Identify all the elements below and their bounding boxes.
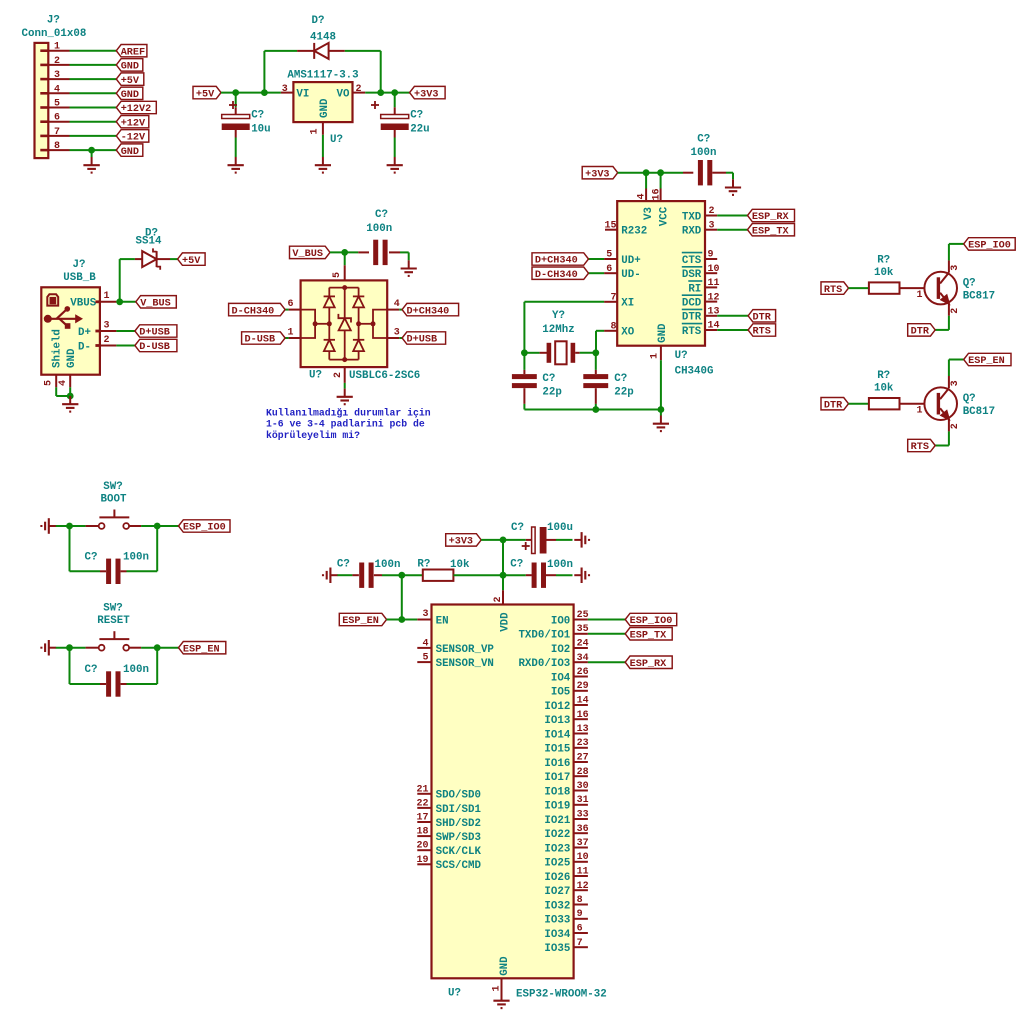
label RTS at emitter [908, 439, 936, 451]
wire +5V rail [221, 92, 281, 94]
svg-text:SW?: SW? [103, 481, 122, 493]
ESP32 pin 37 IO23 stub [574, 847, 588, 849]
svg-text:30: 30 [577, 781, 589, 792]
capacitor C? 100n at CH340 [698, 160, 703, 185]
label RTS at transistor base input [821, 282, 849, 294]
CH340 pin 13 stub [705, 315, 717, 317]
svg-text:Conn_01x08: Conn_01x08 [22, 28, 87, 40]
junction VBUS node [116, 298, 123, 305]
svg-text:+12V2: +12V2 [121, 104, 152, 115]
wire J1 pin8 to ground [91, 150, 93, 157]
svg-text:22p: 22p [614, 387, 633, 399]
wire UD- from D-CH340 [589, 272, 605, 274]
svg-text:IO26: IO26 [544, 872, 570, 884]
C100u right lead [547, 539, 557, 541]
svg-text:GND: GND [657, 323, 669, 343]
capacitor C? 22p right leads [595, 353, 597, 370]
svg-text:IO21: IO21 [544, 815, 570, 827]
svg-text:4: 4 [58, 380, 69, 386]
connector J1 pin 2 stub [40, 64, 48, 67]
svg-text:RTS: RTS [824, 285, 842, 296]
wire RXD to ESP_TX [717, 229, 747, 231]
junction V3 branch [643, 169, 650, 176]
svg-text:C?: C? [337, 559, 350, 571]
wire to ground below CH340 [660, 410, 662, 416]
ESP32 pin 3 EN stub [417, 619, 431, 621]
ESP32 pin 14 IO12 stub [574, 704, 588, 706]
wire cap to bottom right [127, 683, 158, 685]
junction right RESET [154, 644, 161, 651]
svg-text:IO12: IO12 [544, 701, 570, 713]
ESP32 pin 29 IO5 stub [574, 690, 588, 692]
svg-text:1: 1 [287, 327, 293, 338]
connector USB_B body [41, 287, 100, 374]
ESP32 pin 2 VDD stub [502, 590, 504, 604]
svg-text:12: 12 [577, 881, 589, 892]
wire +5V node up to diode D? [263, 51, 265, 93]
svg-text:+5V: +5V [121, 76, 140, 87]
svg-text:5: 5 [54, 99, 60, 110]
svg-text:+12V: +12V [121, 118, 146, 129]
ground right of C100u [574, 539, 581, 541]
ESP32 pin 20 SCK/CLK stub [417, 849, 431, 851]
svg-text:10k: 10k [874, 267, 894, 279]
label D-USB [135, 339, 177, 351]
wire right junction down [156, 526, 158, 571]
svg-text:XO: XO [621, 327, 634, 339]
svg-text:TXD: TXD [682, 211, 702, 223]
svg-text:1: 1 [916, 290, 922, 301]
svg-text:3: 3 [394, 327, 400, 338]
svg-text:D-: D- [78, 341, 91, 353]
CH340 pin 16 VCC wire [660, 173, 662, 189]
ESP32 pin 18 SWP/SD3 stub [417, 835, 431, 837]
capacitor C? 100u polarized [532, 527, 536, 554]
svg-text:2: 2 [950, 423, 961, 429]
svg-text:ESP_RX: ESP_RX [630, 659, 668, 670]
svg-text:12: 12 [708, 292, 720, 303]
connector J1 body [35, 43, 49, 158]
ESP32 pin 27 IO16 stub [574, 761, 588, 763]
junction usb ground node [67, 393, 74, 400]
svg-text:IO27: IO27 [544, 886, 570, 898]
svg-text:19: 19 [416, 855, 428, 866]
connector J1 pin 6 stub [40, 120, 48, 123]
svg-text:ESP_IO0: ESP_IO0 [183, 523, 226, 534]
svg-text:10k: 10k [874, 383, 894, 395]
transistor base pin [900, 287, 925, 289]
wire J1 pin 3 to label +5V [70, 78, 117, 80]
wire J1 pin 2 to label GND [70, 64, 117, 66]
svg-text:D+CH340: D+CH340 [407, 306, 450, 317]
connector J1 pin 1 stub [40, 49, 48, 52]
svg-text:CH340G: CH340G [675, 366, 714, 378]
junction at EN pin wire [398, 616, 405, 623]
ESP32 pin 28 IO17 stub [574, 775, 588, 777]
svg-text:C?: C? [511, 522, 524, 534]
C10u bottom lead and ground [235, 130, 237, 138]
label V_BUS at USBLC6 [290, 246, 331, 258]
USBLC6 pin 5 wire from V_BUS node [344, 252, 346, 265]
svg-text:18: 18 [416, 827, 428, 838]
ground below ESP32 [501, 993, 503, 1001]
svg-text:6: 6 [577, 924, 583, 935]
USB_B pin 3 D+ stub [95, 330, 100, 333]
svg-text:D-CH340: D-CH340 [535, 270, 578, 281]
wire cap to ground [408, 252, 410, 260]
label -12V at J1 pin 7 [116, 130, 149, 142]
svg-text:4: 4 [637, 193, 648, 199]
svg-text:GND: GND [121, 62, 139, 73]
wire left junction down [69, 648, 71, 684]
ground at J1 pin 8 [91, 157, 93, 165]
capacitor C? 100n at VDD [532, 563, 537, 588]
svg-text:köprüleyelim mi?: köprüleyelim mi? [266, 430, 360, 441]
CH340 pin 14 stub [705, 329, 717, 331]
svg-text:11: 11 [708, 278, 720, 289]
svg-text:35: 35 [577, 624, 589, 635]
svg-text:U?: U? [448, 988, 461, 1000]
svg-text:34: 34 [577, 653, 589, 664]
svg-text:8: 8 [577, 895, 583, 906]
svg-text:IO25: IO25 [544, 858, 570, 870]
ESP32 pin 26 IO4 stub [574, 676, 588, 678]
svg-text:SCK/CLK: SCK/CLK [436, 846, 482, 858]
svg-text:AMS1117-3.3: AMS1117-3.3 [287, 69, 358, 81]
svg-text:22: 22 [416, 798, 428, 809]
svg-text:36: 36 [577, 824, 589, 835]
svg-text:2: 2 [950, 308, 961, 314]
ESP32 pin 24 IO2 stub [574, 647, 588, 649]
label D+USB [135, 325, 177, 337]
svg-text:100n: 100n [691, 147, 717, 159]
svg-text:SDI/SD1: SDI/SD1 [436, 804, 482, 816]
regulator U? pin 1 GND stub [322, 122, 324, 135]
capacitor C? 22u polarized [381, 115, 409, 119]
svg-text:ESP_IO0: ESP_IO0 [630, 616, 673, 627]
ESP32 pin 25 IO0 stub [574, 619, 588, 621]
svg-text:4: 4 [54, 84, 60, 95]
wire regulator GND to ground [322, 135, 324, 157]
svg-text:29: 29 [577, 681, 589, 692]
svg-text:IO35: IO35 [544, 943, 570, 955]
connector J1 pin 8 stub [40, 149, 48, 152]
svg-text:C?: C? [375, 209, 388, 221]
svg-text:R?: R? [877, 254, 890, 266]
wire +3V3 down to VDD [502, 540, 504, 575]
USBLC6 right bracket pin4 pin3 [373, 310, 387, 338]
wire DTR to label [717, 315, 748, 317]
capacitor C? 100n at V_BUS [373, 240, 378, 265]
wire +3V3 to junction [481, 539, 503, 541]
wire J1 pin 6 to label +12V [70, 121, 117, 123]
regulator U? pin 3 VI stub [281, 92, 294, 94]
svg-text:ESP_EN: ESP_EN [183, 644, 220, 655]
wire collector to label [948, 360, 950, 377]
ground below CH340 [660, 416, 662, 424]
ground at CH340 cap [732, 179, 734, 187]
label DTR at emitter [908, 324, 936, 336]
label +12V at J1 pin 6 [116, 116, 149, 128]
svg-text:IO15: IO15 [544, 744, 570, 756]
resistor R? 10k [869, 398, 900, 409]
USBLC6 pin 3 stub [387, 337, 399, 339]
svg-text:IO2: IO2 [551, 644, 570, 656]
CH340 pin 2 TXD stub [705, 215, 717, 217]
ESP32 pin 7 IO35 stub [574, 946, 588, 948]
wire RXD0/IO3 to ESP_RX label [588, 661, 625, 663]
svg-text:+3V3: +3V3 [449, 537, 473, 548]
wire base input to resistor [849, 403, 869, 405]
svg-text:5: 5 [44, 380, 55, 386]
svg-text:16: 16 [651, 188, 662, 200]
wire V_BUS to cap node [330, 251, 358, 253]
svg-text:5: 5 [332, 272, 343, 278]
USBLC6 internal right lower diode [358, 324, 360, 340]
wire TXD0/IO1 to ESP_TX label [588, 633, 625, 635]
svg-text:1: 1 [310, 128, 321, 134]
svg-text:D-CH340: D-CH340 [232, 306, 275, 317]
USBLC6 pin 6 stub [289, 309, 301, 311]
transistor base pin [900, 403, 925, 405]
wire to diode cathode [264, 50, 297, 52]
USBLC6 internal top node [342, 285, 347, 290]
wire switch to junction right [141, 525, 178, 527]
svg-text:GND: GND [66, 348, 78, 368]
label V_BUS [136, 296, 177, 308]
svg-text:1: 1 [54, 42, 60, 53]
wire IO0 to ESP_IO0 label [588, 619, 625, 621]
USB_B pin 2 D- stub [95, 344, 100, 347]
USBLC6 internal mid nodes [327, 321, 332, 326]
ESP32 pin 23 IO15 stub [574, 747, 588, 749]
wire EN RC down to EN pin [401, 575, 403, 619]
junction at J1 pin 8 [88, 147, 95, 154]
svg-text:ESP_IO0: ESP_IO0 [968, 241, 1011, 252]
svg-text:2: 2 [54, 56, 60, 67]
ground below USB_B [69, 396, 71, 404]
connector J1 pin 5 stub [40, 106, 48, 109]
svg-text:VBUS: VBUS [70, 298, 96, 310]
svg-text:EN: EN [436, 615, 449, 627]
power label +5V [193, 86, 221, 98]
wire J1 pin 7 to label -12V [70, 135, 117, 137]
svg-text:31: 31 [577, 795, 589, 806]
svg-text:SENSOR_VN: SENSOR_VN [436, 658, 494, 670]
svg-text:IO16: IO16 [544, 758, 570, 770]
svg-text:SS14: SS14 [136, 236, 162, 248]
svg-text:GND: GND [121, 147, 139, 158]
svg-text:16: 16 [577, 710, 589, 721]
svg-text:4148: 4148 [310, 31, 336, 43]
wire UD+ from D+CH340 [589, 258, 605, 260]
label D+USB at USBLC6 [402, 332, 446, 344]
svg-text:22p: 22p [542, 387, 561, 399]
CH340 pin 8 XO stub [604, 330, 617, 332]
ground below regulator [322, 157, 324, 165]
diode D? SS14 schottky [135, 258, 142, 260]
USBLC6 internal left lower diode [328, 324, 330, 340]
svg-text:27: 27 [577, 753, 589, 764]
wire bottom left to cap [70, 683, 101, 685]
svg-text:VDD: VDD [500, 612, 512, 632]
capacitor C? 100n at EN [359, 563, 364, 588]
ESP32 pin 13 IO14 stub [574, 733, 588, 735]
CH340 pin 1 GND stub [660, 346, 662, 361]
svg-text:100n: 100n [366, 223, 392, 235]
svg-text:U?: U? [309, 370, 322, 382]
svg-text:IO33: IO33 [544, 915, 570, 927]
wire RTS to label [717, 329, 748, 331]
wire down to +3V3 rail [380, 51, 382, 93]
switch SW? RESET [86, 647, 99, 649]
svg-text:DTR: DTR [753, 313, 772, 324]
resistor R? 10k at EN [423, 570, 454, 581]
ESP32 pin 17 SHD/SD2 stub [417, 821, 431, 823]
diode D? 4148 pointing left [297, 50, 314, 52]
label DTR at transistor base input [821, 398, 849, 410]
label ESP_IO0 at ESP32 [625, 613, 677, 625]
wire J1 pin 1 to label AREF [70, 50, 117, 52]
label ESP_EN at collector [964, 353, 1011, 365]
wire D- to D-USB label [116, 345, 134, 347]
label ESP_TX [748, 224, 795, 236]
svg-text:100n: 100n [375, 559, 401, 571]
junction ground bus at C22p right [592, 406, 599, 413]
svg-text:3: 3 [282, 84, 288, 95]
svg-text:D?: D? [312, 15, 325, 27]
svg-text:1: 1 [492, 985, 503, 991]
svg-text:8: 8 [54, 141, 60, 152]
svg-text:V3: V3 [643, 207, 655, 220]
wire base input to resistor [849, 287, 869, 289]
svg-text:Y?: Y? [552, 310, 565, 322]
CH340 pin 15 R232 stub [605, 229, 617, 231]
svg-text:DTR: DTR [911, 327, 930, 338]
label D-CH340 at USBLC6 [229, 303, 286, 315]
capacitor C? 10u polarized [222, 115, 250, 119]
wire J1 pin 4 to label GND [70, 92, 117, 94]
junction left BOOT [66, 523, 73, 530]
svg-text:21: 21 [416, 784, 428, 795]
junction VDD node [500, 572, 507, 579]
svg-text:C?: C? [251, 109, 264, 121]
USB_B pin 1 VBUS stub [95, 300, 100, 303]
wire to C100u [503, 539, 526, 541]
svg-text:25: 25 [577, 610, 589, 621]
svg-text:BC817: BC817 [963, 406, 995, 418]
svg-text:SHD/SD2: SHD/SD2 [436, 818, 481, 830]
svg-text:IO23: IO23 [544, 843, 570, 855]
ground left of RESET switch [49, 647, 56, 649]
svg-text:R?: R? [417, 559, 430, 571]
svg-text:2: 2 [104, 335, 110, 346]
power label +3V3 [410, 86, 446, 98]
svg-text:CTS: CTS [682, 255, 702, 267]
junction +3V3 ESP32 [500, 537, 507, 544]
USBLC6 internal right upper diode [358, 288, 360, 297]
transistor collector pin [948, 260, 950, 272]
junction crystal left [521, 349, 528, 356]
ground at V_BUS cap [408, 260, 410, 268]
svg-text:33: 33 [577, 810, 589, 821]
wire VBUS node up to diode SS14 [119, 259, 121, 302]
svg-text:2: 2 [333, 372, 344, 378]
ESP32 pin 4 SENSOR_VP stub [417, 647, 431, 649]
wire J1 pin 8 to label GND [70, 149, 117, 151]
label ESP_EN at RESET [179, 642, 226, 654]
junction crystal right [592, 349, 599, 356]
svg-text:+5V: +5V [196, 89, 215, 100]
svg-text:5: 5 [606, 250, 612, 261]
wire +3V3 rail CH340 [618, 172, 683, 174]
svg-text:Q?: Q? [963, 278, 976, 290]
svg-text:SENSOR_VP: SENSOR_VP [436, 644, 495, 656]
USBLC6 internal zener diode [344, 288, 346, 319]
svg-text:DSR: DSR [682, 269, 702, 281]
CH340 pin 10 stub [705, 272, 717, 274]
svg-text:10: 10 [577, 852, 589, 863]
svg-text:9: 9 [577, 909, 583, 920]
svg-text:22u: 22u [410, 123, 429, 135]
wire crystal ground bus [524, 409, 661, 411]
svg-text:SCS/CMD: SCS/CMD [436, 860, 482, 872]
wire diode anode to +3V3 node [345, 50, 381, 52]
svg-text:SDO/SD0: SDO/SD0 [436, 790, 481, 802]
label D+CH340 at CH340 [532, 253, 589, 265]
svg-text:6: 6 [54, 113, 60, 124]
svg-text:UD+: UD+ [621, 255, 640, 267]
transistor Q? BC817 body [924, 272, 957, 305]
CH340 pin 3 RXD stub [705, 229, 717, 231]
junction left RESET [66, 644, 73, 651]
svg-text:9: 9 [708, 250, 714, 261]
wire ground to junction [56, 647, 86, 649]
wire switch to junction right [141, 647, 178, 649]
label D-CH340 at CH340 [532, 267, 589, 279]
junction V_BUS node [341, 249, 348, 256]
USBLC6 pin 1 stub [289, 337, 301, 339]
ESP32 pin 30 IO18 stub [574, 790, 588, 792]
svg-text:3: 3 [950, 380, 961, 386]
wire ground to C100n [337, 574, 352, 576]
label +12V2 at J1 pin 5 [116, 101, 156, 113]
label ESP_IO0 at collector [964, 238, 1016, 250]
wire resistor to VDD junction [453, 574, 503, 576]
svg-text:20: 20 [416, 841, 428, 852]
label DTR at CH340 [748, 310, 776, 322]
USBLC6 left bracket pin6 pin1 [301, 310, 316, 338]
capacitor C? 22u leads [394, 93, 396, 108]
ESP32 pin 31 IO19 stub [574, 804, 588, 806]
label ESP_RX [748, 209, 795, 221]
wire XI to crystal [524, 301, 604, 303]
CH340 pin 7 XI stub [604, 301, 617, 303]
ESP32 pin 8 IO32 stub [574, 904, 588, 906]
svg-text:2: 2 [356, 84, 362, 95]
svg-text:U?: U? [675, 350, 688, 362]
svg-text:RXD: RXD [682, 226, 702, 238]
svg-text:IO18: IO18 [544, 786, 570, 798]
USBLC6 pin 4 stub [387, 309, 399, 311]
svg-text:D+USB: D+USB [407, 335, 438, 346]
svg-text:13: 13 [577, 724, 589, 735]
USBLC6 internal bottom node [342, 357, 347, 362]
svg-text:IO14: IO14 [544, 729, 570, 741]
svg-text:+5V: +5V [182, 256, 201, 267]
svg-text:IO5: IO5 [551, 687, 570, 699]
svg-text:ESP32-WROOM-32: ESP32-WROOM-32 [516, 989, 607, 1001]
